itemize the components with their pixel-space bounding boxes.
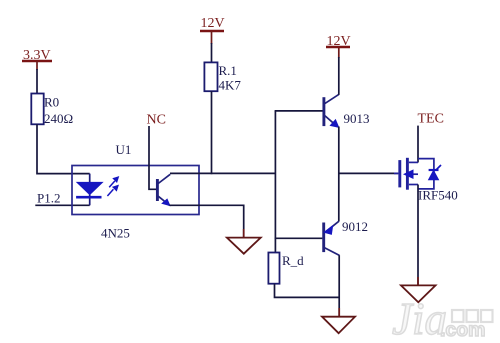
svg-text:U1: U1	[116, 142, 132, 157]
resistor R0	[31, 94, 43, 125]
wire red stub into ground	[243, 229, 245, 238]
wire gate	[339, 172, 399, 174]
power label 12V (right)	[326, 34, 351, 49]
wire opto collector to base bus	[170, 172, 275, 174]
ground (push-pull)	[322, 317, 355, 334]
wire R_d bottom to collector	[275, 284, 340, 298]
wire source to ground	[417, 185, 419, 286]
svg-text:4N25: 4N25	[101, 226, 130, 241]
mosfet gate lead	[394, 172, 398, 174]
opto-coupler U1 body	[72, 166, 199, 215]
transistor Q1 9013	[324, 94, 339, 127]
wire 9012 collector down	[338, 255, 340, 317]
transistor Q2 9012	[324, 221, 340, 255]
body diode D1	[429, 165, 441, 180]
svg-text:IRF540: IRF540	[418, 188, 458, 203]
svg-text:R_d: R_d	[282, 253, 304, 268]
watermark jia.com	[392, 294, 493, 343]
resistor R_d	[268, 253, 279, 284]
svg-text:P1.2: P1.2	[37, 191, 60, 206]
mosfet substrate arrow	[404, 170, 413, 178]
svg-text:9013: 9013	[344, 111, 370, 126]
wire R.1 to collector wire	[211, 91, 213, 174]
wire R0 to LED anode	[37, 124, 90, 173]
wire NC to base	[149, 126, 157, 189]
power label 3.3V	[22, 48, 52, 63]
resistor R.1	[204, 62, 217, 91]
LED inside U1	[76, 174, 102, 206]
svg-text:9012: 9012	[342, 219, 368, 234]
wire emitter bus	[338, 127, 340, 222]
mosfet Q3 IRF540	[400, 158, 418, 190]
wire red stub into ground 2	[338, 308, 340, 317]
ground (opto emitter)	[227, 238, 261, 254]
power label 12V (top)	[200, 16, 225, 31]
svg-text:R.1: R.1	[219, 63, 237, 78]
wire red stub into ground 3	[417, 277, 419, 285]
LED emission arrows	[107, 177, 118, 196]
wire TEC to drain	[417, 126, 419, 163]
body diode branch	[418, 159, 434, 189]
svg-text:240Ω: 240Ω	[44, 111, 73, 126]
svg-text:12V: 12V	[201, 16, 225, 31]
node P1.2 wire	[35, 204, 89, 206]
node base bus	[274, 111, 276, 253]
wire 9012 base	[275, 237, 323, 239]
photo-transistor emitter arrow	[162, 199, 170, 205]
wire 12V to R.1	[211, 31, 213, 44]
svg-text:.com: .com	[440, 319, 486, 341]
svg-text:4K7: 4K7	[219, 78, 242, 93]
svg-text:TEC: TEC	[418, 112, 444, 127]
wire 9013 collector to 12V	[338, 47, 340, 58]
photo-transistor of U1	[157, 174, 170, 205]
wire 3.3V to R0	[36, 61, 38, 70]
svg-text:NC: NC	[147, 113, 166, 128]
wire opto emitter to ground	[169, 205, 243, 237]
wire 9013 base	[275, 110, 323, 112]
ground (mosfet source)	[401, 285, 436, 302]
svg-text:R0: R0	[44, 95, 59, 110]
svg-text:Jia: Jia	[392, 294, 447, 343]
